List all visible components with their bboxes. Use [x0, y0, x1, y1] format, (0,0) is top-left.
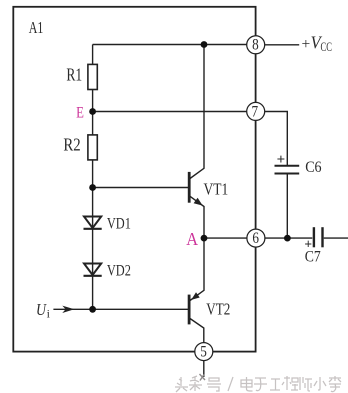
svg-text:A1: A1: [29, 18, 44, 37]
svg-text:U: U: [36, 300, 47, 319]
svg-text:C6: C6: [305, 159, 322, 176]
svg-text:VT1: VT1: [204, 179, 229, 198]
svg-text:A: A: [186, 229, 198, 249]
svg-text:VD2: VD2: [107, 261, 131, 280]
svg-text:+: +: [302, 36, 311, 53]
svg-text:+: +: [304, 237, 312, 252]
svg-text:+: +: [277, 152, 286, 168]
svg-text:i: i: [47, 307, 51, 321]
svg-text:6: 6: [252, 230, 259, 247]
svg-text:8: 8: [252, 37, 259, 54]
svg-text:E: E: [76, 104, 84, 121]
svg-text:5: 5: [200, 343, 207, 360]
svg-text:VD1: VD1: [107, 214, 131, 233]
svg-text:7: 7: [252, 103, 259, 120]
svg-text:VT2: VT2: [206, 300, 230, 319]
svg-text:CC: CC: [321, 40, 332, 54]
svg-text:R1: R1: [66, 65, 82, 85]
svg-text:R2: R2: [63, 135, 80, 155]
